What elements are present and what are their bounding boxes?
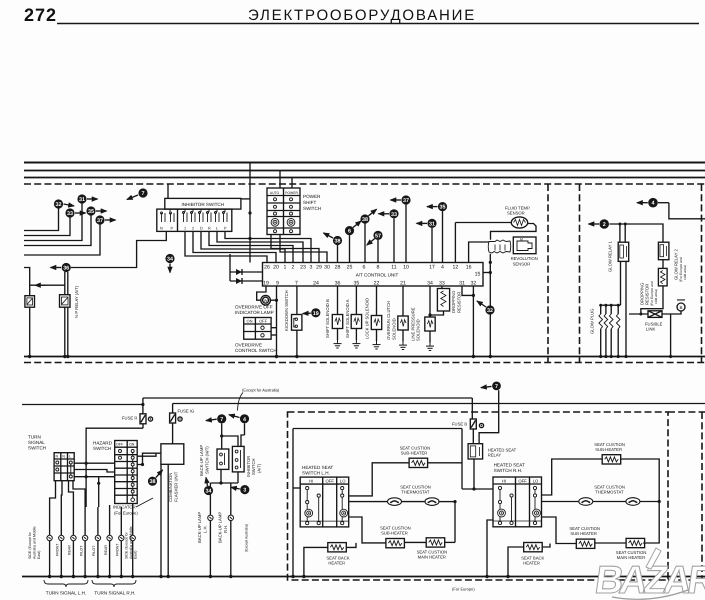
svg-text:19: 19: [313, 311, 319, 317]
svg-text:BACK-UP LAMP: BACK-UP LAMP: [197, 512, 202, 543]
svg-text:11: 11: [391, 265, 396, 271]
svg-text:2: 2: [292, 265, 295, 271]
svg-text:7: 7: [142, 191, 145, 197]
svg-text:INHIBITOR SWITCH: INHIBITOR SWITCH: [182, 202, 225, 207]
svg-text:POWER: POWER: [285, 191, 298, 195]
svg-text:2: 2: [603, 222, 606, 228]
svg-text:33: 33: [391, 212, 397, 218]
svg-text:(Except for Australia): (Except for Australia): [242, 388, 280, 393]
svg-text:R: R: [56, 455, 59, 459]
svg-text:PILOT: PILOT: [79, 545, 83, 556]
svg-text:INDICATOR LAMP: INDICATOR LAMP: [235, 310, 274, 315]
svg-text:HEATER: HEATER: [523, 561, 540, 566]
svg-text:SENSOR: SENSOR: [513, 262, 531, 267]
svg-text:ЭЛЕКТРООБОРУДОВАНИЕ: ЭЛЕКТРООБОРУДОВАНИЕ: [248, 7, 476, 24]
svg-text:SOLENOID: SOLENOID: [416, 319, 421, 341]
svg-text:37: 37: [97, 218, 103, 224]
svg-text:OFF: OFF: [116, 443, 124, 447]
svg-text:FRONT: FRONT: [56, 543, 60, 556]
svg-text:38: 38: [362, 217, 368, 223]
svg-text:COMBINATION: COMBINATION: [168, 473, 173, 502]
svg-text:HEATER: HEATER: [328, 561, 345, 566]
svg-text:35: 35: [440, 205, 446, 211]
svg-text:CONTROL SWITCH: CONTROL SWITCH: [235, 348, 277, 353]
svg-text:A/T CONTROL UNIT: A/T CONTROL UNIT: [356, 272, 399, 277]
svg-text:RELAY: RELAY: [488, 453, 502, 458]
svg-text:FRONT: FRONT: [116, 543, 120, 556]
svg-text:TURN SIGNAL L.H.: TURN SIGNAL L.H.: [46, 591, 86, 596]
svg-text:1: 1: [184, 227, 186, 231]
svg-text:OVERDRIVE OFF: OVERDRIVE OFF: [235, 305, 273, 310]
svg-text:East): East): [37, 551, 41, 559]
svg-text:THERMOSTAT: THERMOSTAT: [401, 490, 430, 495]
svg-text:12: 12: [453, 265, 459, 271]
svg-text:SHIFT: SHIFT: [303, 200, 316, 205]
svg-text:RESISTOR: RESISTOR: [644, 284, 649, 305]
svg-text:LINE PRESSURE: LINE PRESSURE: [410, 307, 415, 341]
svg-text:4: 4: [243, 417, 246, 423]
svg-text:SWITCH: SWITCH: [28, 446, 46, 451]
svg-text:26: 26: [264, 265, 270, 271]
svg-text:SUB-HEATER: SUB-HEATER: [401, 451, 428, 456]
svg-text:4: 4: [652, 201, 655, 207]
svg-text:REVOLUTION: REVOLUTION: [511, 256, 538, 261]
svg-text:37: 37: [403, 198, 409, 204]
svg-text:REAR: REAR: [68, 545, 72, 555]
svg-text:POWER: POWER: [303, 194, 321, 199]
svg-text:2: 2: [192, 227, 194, 231]
svg-text:TURN: TURN: [28, 435, 41, 440]
svg-text:SIDE (Except for: SIDE (Except for: [125, 531, 129, 559]
svg-text:cold area): cold area): [683, 265, 687, 280]
svg-text:ON: ON: [129, 443, 135, 447]
svg-text:LINK: LINK: [646, 327, 656, 332]
svg-text:(Except Australia): (Except Australia): [245, 524, 249, 552]
svg-text:SWITCH (M/T): SWITCH (M/T): [204, 446, 209, 474]
svg-text:RESISTOR: RESISTOR: [456, 292, 461, 313]
svg-text:SIGNAL: SIGNAL: [28, 440, 45, 445]
svg-text:38: 38: [335, 239, 341, 245]
svg-text:P: P: [171, 227, 174, 231]
svg-text:33: 33: [67, 211, 73, 217]
svg-text:SUB-HEATER: SUB-HEATER: [595, 447, 622, 452]
svg-text:33: 33: [439, 281, 445, 287]
svg-text:ON: ON: [247, 319, 253, 324]
svg-text:SUB-HEATER: SUB-HEATER: [381, 531, 408, 536]
svg-text:(For Europe): (For Europe): [114, 511, 138, 516]
svg-text:32: 32: [56, 202, 62, 208]
svg-text:22: 22: [374, 281, 380, 287]
svg-text:SWITCH L.H.: SWITCH L.H.: [302, 471, 330, 476]
svg-text:24: 24: [313, 281, 319, 287]
svg-text:(For Europe): (For Europe): [452, 587, 475, 592]
svg-text:32: 32: [471, 281, 477, 287]
svg-text:35: 35: [88, 209, 94, 215]
svg-text:SWITCH: SWITCH: [251, 458, 256, 475]
svg-text:16: 16: [466, 265, 472, 271]
svg-text:272: 272: [24, 5, 57, 25]
svg-text:36: 36: [335, 281, 341, 287]
svg-text:GLOW RELAY 2: GLOW RELAY 2: [674, 249, 679, 280]
svg-text:25: 25: [347, 265, 353, 271]
svg-text:32: 32: [487, 308, 493, 314]
svg-text:SIDE (Except for: SIDE (Except for: [28, 531, 32, 559]
svg-text:36: 36: [63, 266, 69, 272]
svg-text:SENSOR: SENSOR: [507, 211, 525, 216]
svg-text:23: 23: [300, 265, 306, 271]
svg-text:6: 6: [348, 229, 351, 235]
svg-text:MAIN HEATER: MAIN HEATER: [418, 555, 446, 560]
svg-text:1: 1: [284, 265, 287, 271]
svg-text:R.H.: R.H.: [223, 525, 228, 533]
svg-text:N·P RELAY (A/T): N·P RELAY (A/T): [74, 285, 79, 318]
svg-text:HEATED SEAT: HEATED SEAT: [302, 465, 333, 470]
svg-text:34: 34: [167, 257, 173, 263]
svg-text:OVERRUN CLUTCH: OVERRUN CLUTCH: [386, 301, 391, 340]
svg-text:cold area): cold area): [654, 289, 658, 304]
svg-text:SWITCH R.H.: SWITCH R.H.: [494, 468, 523, 473]
svg-text:FUSE B: FUSE B: [452, 422, 467, 427]
svg-text:SWITCH: SWITCH: [93, 446, 111, 451]
svg-text:17: 17: [429, 265, 435, 271]
svg-text:B: B: [679, 305, 682, 310]
svg-text:L: L: [69, 455, 71, 459]
svg-text:SUB HEATER: SUB HEATER: [570, 531, 596, 536]
svg-text:N: N: [160, 227, 163, 231]
svg-text:W: W: [264, 298, 268, 303]
svg-text:7: 7: [295, 281, 298, 287]
svg-text:31: 31: [459, 281, 465, 287]
svg-text:GLOW PLUG: GLOW PLUG: [590, 309, 595, 334]
svg-text:9: 9: [276, 281, 279, 287]
svg-text:P: P: [224, 227, 227, 231]
svg-text:4: 4: [441, 265, 444, 271]
svg-text:LOCK UP SOLENOID: LOCK UP SOLENOID: [364, 298, 369, 339]
svg-text:TURN SIGNAL R.H.: TURN SIGNAL R.H.: [94, 591, 135, 596]
svg-text:15: 15: [475, 272, 481, 278]
svg-text:34: 34: [427, 281, 433, 287]
svg-text:FUSE R: FUSE R: [122, 416, 137, 421]
svg-text:THERMOSTAT: THERMOSTAT: [595, 490, 624, 495]
svg-text:FUSE IG: FUSE IG: [178, 409, 195, 414]
svg-text:3: 3: [243, 488, 246, 494]
svg-text:57: 57: [375, 233, 381, 239]
svg-text:HAZARD: HAZARD: [93, 441, 113, 446]
svg-text:GLOW RELAY 1: GLOW RELAY 1: [608, 241, 613, 272]
svg-text:21: 21: [400, 281, 406, 287]
svg-text:HEATED SEAT: HEATED SEAT: [494, 463, 525, 468]
svg-text:L.H.: L.H.: [202, 525, 207, 533]
svg-text:29: 29: [316, 265, 322, 271]
svg-text:8: 8: [377, 265, 380, 271]
svg-text:OVERDRIVE: OVERDRIVE: [235, 343, 262, 348]
svg-text:7: 7: [220, 417, 223, 423]
svg-text:31: 31: [429, 221, 435, 227]
svg-text:DROPPING: DROPPING: [451, 291, 456, 313]
svg-text:INHIBITOR: INHIBITOR: [246, 456, 251, 477]
svg-text:AUTO: AUTO: [270, 191, 280, 195]
svg-text:7: 7: [495, 384, 498, 390]
svg-text:(A/T): (A/T): [256, 463, 261, 473]
svg-text:34: 34: [206, 489, 212, 495]
svg-text:Australia and Middle: Australia and Middle: [33, 526, 37, 559]
svg-text:East): East): [134, 551, 138, 559]
svg-text:D: D: [200, 227, 203, 231]
svg-text:28: 28: [335, 265, 341, 271]
svg-text:30: 30: [324, 265, 330, 271]
svg-text:20: 20: [273, 265, 279, 271]
svg-text:SHIFT SOLENOID A: SHIFT SOLENOID A: [345, 299, 350, 338]
svg-text:BACK-UP LAMP: BACK-UP LAMP: [199, 445, 204, 476]
svg-text:FLASHER UNIT: FLASHER UNIT: [173, 471, 178, 502]
svg-text:BACK-UP LAMP: BACK-UP LAMP: [218, 512, 223, 543]
svg-text:3: 3: [310, 265, 313, 271]
svg-text:M: M: [520, 238, 523, 242]
svg-text:10: 10: [403, 265, 409, 271]
svg-text:SWITCH: SWITCH: [303, 206, 321, 211]
svg-text:6: 6: [363, 265, 366, 271]
svg-text:SHIFT SOLENOID B: SHIFT SOLENOID B: [325, 299, 330, 338]
svg-text:REAR: REAR: [104, 545, 108, 555]
svg-text:SOLENOID: SOLENOID: [391, 318, 396, 340]
svg-text:PILOT: PILOT: [92, 545, 96, 556]
svg-text:R: R: [208, 227, 211, 231]
svg-text:31: 31: [79, 197, 85, 203]
svg-text:19: 19: [263, 281, 269, 287]
svg-text:35: 35: [354, 281, 360, 287]
svg-text:OFF: OFF: [259, 319, 268, 324]
svg-text:38: 38: [150, 479, 156, 485]
svg-text:L: L: [216, 227, 218, 231]
svg-text:KICKDOWN SWITCH: KICKDOWN SWITCH: [284, 290, 289, 331]
svg-text:Australia and Middle: Australia and Middle: [129, 526, 133, 559]
svg-text:N: N: [62, 455, 65, 459]
